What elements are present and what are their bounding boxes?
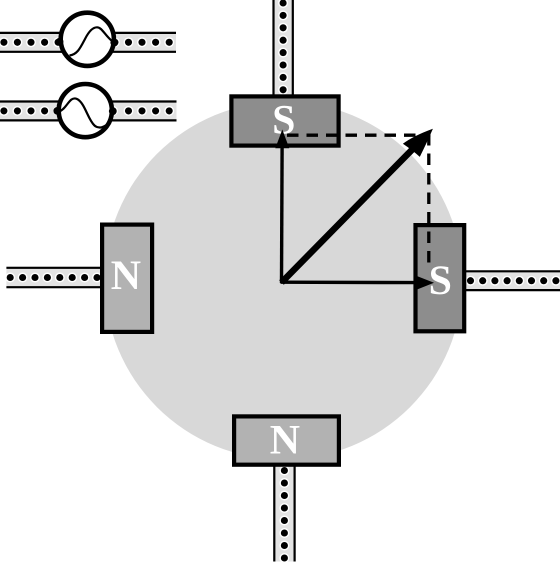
magnet right S pole xyxy=(416,225,465,331)
coil strip A (top-left phase-1 conductor band) xyxy=(0,32,176,53)
field vector arrow up (to top S magnet) xyxy=(275,130,289,284)
magnet top S pole xyxy=(231,96,338,145)
rotor disc (large gray circle) xyxy=(105,102,463,460)
coil strip E (top stator conductor band, vertical) xyxy=(272,0,294,95)
magnet left N pole xyxy=(102,225,152,332)
AC source V1 (top sine generator) xyxy=(56,13,119,66)
AC source V2 (bottom sine generator) xyxy=(53,84,116,137)
dashed construction line vertical (from resultant tip down to right S) xyxy=(427,134,430,267)
magnet bottom N pole xyxy=(234,416,339,464)
field vector arrow right (to right S magnet) xyxy=(281,276,435,290)
coil strip D (right stator conductor band) xyxy=(466,270,560,291)
resultant field vector arrow (thick diagonal) xyxy=(282,129,433,283)
coil strip B (top-left phase-2 conductor band) xyxy=(0,100,177,121)
dashed construction line horizontal (from top S to resultant tip) xyxy=(287,134,430,137)
coil strip C (left stator conductor band) xyxy=(5,267,102,289)
coil strip F (bottom stator conductor band, vertical) xyxy=(273,466,296,563)
